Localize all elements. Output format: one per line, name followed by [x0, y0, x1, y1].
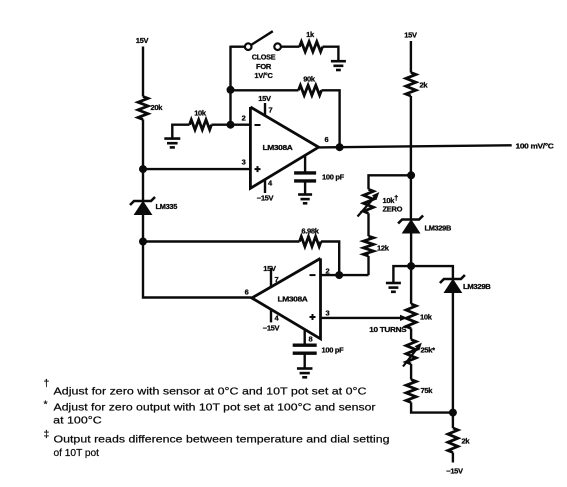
potentiometer 10k ZERO [364, 189, 374, 213]
svg-text:2: 2 [242, 114, 246, 123]
svg-text:−15V: −15V [257, 194, 274, 203]
wire 2k to -15V [452, 453, 454, 463]
pin 7 supply tick top [264, 103, 266, 116]
resistor 2k bottom [448, 428, 458, 453]
resistor 6.98k [300, 237, 322, 247]
wire 1k to ground [323, 47, 339, 61]
svg-text:2: 2 [326, 267, 330, 276]
wire 15V to 2k right [410, 41, 412, 73]
wire cap to ground bottom [304, 353, 306, 368]
ground 1k [331, 60, 346, 63]
wire 2k to zener1 [410, 96, 412, 220]
junction ground node [407, 262, 415, 270]
pin 4 tick bottom [270, 309, 272, 322]
wire node to 2k bottom [452, 413, 454, 428]
svg-text:100 pF: 100 pF [322, 173, 345, 182]
wire node to 90k [231, 89, 299, 91]
minus top opamp [255, 124, 261, 126]
svg-text:20k: 20k [151, 103, 164, 112]
pin 4 supply tick top opamp [264, 180, 266, 194]
wire switch to 1k [281, 46, 300, 48]
ground mid right [386, 282, 401, 285]
wire to switch [231, 46, 245, 48]
wire ground to 10k [172, 125, 189, 140]
svg-text:25k*: 25k* [421, 346, 436, 355]
svg-text:15V: 15V [136, 36, 149, 45]
wire gnd node to zener2 [411, 266, 453, 278]
capacitor 100pF top [294, 171, 316, 174]
wire LM335 node to 6.98k [143, 240, 300, 242]
svg-text:LM329B: LM329B [425, 224, 452, 233]
wire output [319, 145, 512, 147]
svg-text:10k: 10k [194, 109, 207, 118]
ground cap top [298, 193, 312, 196]
svg-text:at 100°C: at 100°C [53, 415, 102, 427]
svg-text:15V: 15V [258, 94, 271, 103]
svg-text:FOR: FOR [256, 62, 272, 71]
wire 75k to ref node [411, 402, 453, 412]
svg-text:of 10T pot: of 10T pot [54, 447, 100, 459]
wire 10k to 25k [410, 328, 412, 339]
svg-text:3: 3 [242, 158, 246, 167]
svg-text:6.98k: 6.98k [301, 227, 319, 236]
ground cap bottom [297, 367, 313, 370]
wire 20k to node3 [142, 119, 144, 169]
zener LM335 temperature sensor [130, 197, 155, 205]
junction pin2 bottom node [335, 271, 343, 279]
svg-text:LM308A: LM308A [263, 143, 294, 152]
wire 25k to 75k [410, 364, 412, 380]
wire pin2 bottom [321, 274, 369, 276]
svg-text:1k: 1k [306, 30, 315, 39]
resistor 20k [138, 97, 148, 120]
svg-text:6: 6 [245, 288, 249, 297]
svg-text:1V/°C: 1V/°C [254, 71, 273, 80]
resistor 75k [406, 380, 416, 403]
wiper arrowhead [400, 315, 408, 321]
op-amp LM308A bottom [252, 258, 321, 338]
junction LM335 bottom [139, 238, 147, 246]
wire switch vertical [229, 46, 231, 125]
wire 15V to 20k [142, 47, 144, 97]
switch CLOSE FOR 1V/degC [245, 43, 252, 50]
svg-text:100 mV/°C: 100 mV/°C [516, 141, 555, 150]
svg-text:10k: 10k [420, 313, 433, 322]
svg-text:−15V: −15V [263, 324, 280, 333]
svg-text:100 pF: 100 pF [322, 346, 345, 355]
potentiometer 25k [406, 340, 416, 365]
pin 7 tick bottom [270, 268, 272, 287]
wire pin3 horizontal [143, 168, 250, 170]
junction minus ref node [449, 409, 457, 417]
junction zero-pot node [407, 171, 415, 179]
svg-text:*: * [44, 399, 48, 411]
svg-text:15V: 15V [404, 31, 417, 40]
svg-text:6: 6 [325, 135, 329, 144]
wire zener2 down [452, 293, 454, 413]
svg-text:Adjust for zero output with 10: Adjust for zero output with 10T pot set … [54, 402, 377, 414]
svg-text:2k: 2k [420, 81, 429, 90]
junction output node [336, 143, 344, 151]
svg-text:7: 7 [275, 275, 279, 284]
resistor 10k input [190, 120, 212, 130]
wire comp pin to cap top [304, 155, 306, 172]
potentiometer 10k ten-turn [406, 304, 416, 329]
wire cap to ground top [304, 181, 306, 194]
svg-text:3: 3 [326, 309, 330, 318]
wire 6.98k to pin2 b [321, 242, 339, 276]
svg-text:LM329B: LM329B [463, 282, 491, 291]
minus bottom opamp [310, 274, 316, 276]
resistor 2k right [406, 73, 416, 96]
ground input 10k [164, 137, 180, 140]
svg-text:12k: 12k [377, 244, 390, 253]
wire comp pin to cap bottom [304, 329, 306, 344]
wire 12k to pin2 wire [367, 256, 369, 275]
wire pin3 to wiper [321, 317, 402, 319]
wire gnd node to 10k pot [410, 266, 412, 304]
wire pot to 12k [367, 213, 369, 236]
wire zener1 to gnd node [410, 233, 412, 266]
wire gnd stub [393, 266, 411, 282]
resistor 12k [364, 236, 374, 256]
plus top opamp [255, 168, 261, 170]
svg-text:LM308A: LM308A [278, 295, 309, 304]
svg-text:8: 8 [309, 335, 313, 344]
plus bottom opamp [310, 316, 316, 318]
svg-text:†: † [44, 378, 50, 390]
resistor 90k [299, 85, 322, 95]
wire down-left column [143, 242, 252, 298]
junction pin2 node [227, 121, 235, 129]
wire node to LM335 [142, 169, 144, 201]
svg-text:10 TURNS: 10 TURNS [369, 325, 406, 334]
svg-text:‡: ‡ [44, 429, 50, 441]
junction pin3 top [139, 165, 147, 173]
svg-text:75k: 75k [421, 386, 434, 395]
svg-text:Adjust for zero with sensor at: Adjust for zero with sensor at 0°C and 1… [54, 386, 367, 398]
svg-text:90k: 90k [303, 75, 316, 84]
wire 10k to pin2 [212, 123, 251, 125]
svg-text:ZERO: ZERO [383, 205, 403, 214]
wire node to zero pot [369, 175, 412, 189]
svg-text:15V: 15V [263, 264, 276, 273]
svg-text:LM335: LM335 [156, 202, 178, 211]
capacitor 100pF bottom [293, 344, 317, 347]
svg-text:7: 7 [269, 106, 273, 115]
resistor 1k [300, 42, 323, 52]
svg-text:Output reads difference betwee: Output reads difference between temperat… [54, 434, 390, 446]
zener LM329B lower [440, 275, 465, 283]
zener LM329B upper [398, 216, 423, 224]
op-amp LM308A top [250, 107, 318, 188]
wire LM335 to node [142, 215, 144, 242]
wire 90k to output node [322, 90, 340, 147]
svg-text:CLOSE: CLOSE [252, 53, 276, 62]
junction switch-feedback [227, 86, 235, 94]
svg-text:−15V: −15V [446, 467, 463, 476]
svg-text:2k: 2k [462, 437, 471, 446]
